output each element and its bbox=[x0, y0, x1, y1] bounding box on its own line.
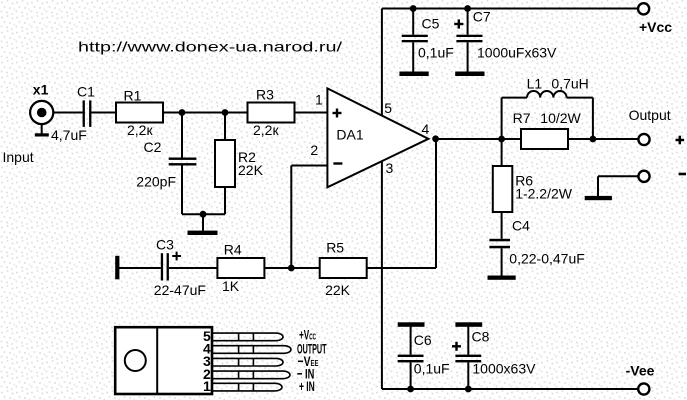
svg-text:22K: 22K bbox=[325, 282, 351, 298]
node L1 right bbox=[590, 136, 597, 143]
terminal output minus bbox=[638, 171, 649, 182]
wire C3 to R4 bbox=[169, 267, 217, 269]
wire negative output terminal horizontal bbox=[598, 175, 638, 177]
wire C7 stem bbox=[467, 9, 469, 35]
svg-text:2,2к: 2,2к bbox=[253, 122, 279, 138]
svg-text:2: 2 bbox=[310, 142, 318, 158]
node L1-R6 left bbox=[498, 136, 505, 143]
resistor R2 bbox=[215, 140, 235, 187]
svg-text:2,2к: 2,2к bbox=[127, 122, 153, 138]
ground bar under X1 bbox=[35, 133, 49, 136]
pin 3 lead bbox=[212, 358, 283, 366]
terminal +Vcc bbox=[638, 3, 649, 14]
capacitor C2 bbox=[169, 158, 197, 166]
wire input row X1 to C1 bbox=[54, 112, 83, 114]
svg-text:22-47uF: 22-47uF bbox=[154, 282, 206, 298]
wire C3 ground bar to C3 bbox=[119, 267, 161, 269]
svg-text:22K: 22K bbox=[238, 162, 264, 178]
wire op-amp pin 5 vertical bbox=[381, 9, 383, 117]
wire pin 2 vertical to feedback node bbox=[290, 166, 292, 269]
svg-text:http://www.donex-ua.narod.ru/: http://www.donex-ua.narod.ru/ bbox=[78, 38, 342, 54]
connector X1 bbox=[30, 101, 53, 124]
wire negative output ground stub bbox=[597, 176, 599, 196]
svg-text:L1: L1 bbox=[527, 76, 543, 92]
pin 2 lead bbox=[212, 371, 290, 379]
capacitor C6 bbox=[398, 355, 424, 363]
resistor R5 bbox=[320, 258, 367, 278]
svg-text:1: 1 bbox=[203, 378, 211, 394]
wire C6 upper stem bbox=[410, 327, 412, 355]
svg-text:C5: C5 bbox=[422, 15, 440, 31]
svg-text:R7: R7 bbox=[513, 110, 531, 126]
capacitor C8 bbox=[455, 355, 481, 363]
capacitor C4 bbox=[489, 239, 510, 249]
svg-text:0,22-0,47uF: 0,22-0,47uF bbox=[509, 250, 585, 266]
svg-text:10/2W: 10/2W bbox=[540, 110, 581, 126]
wire C4 lower stem bbox=[501, 248, 503, 275]
ground bar left of C3 bbox=[115, 256, 119, 279]
wire R7 to output terminal bbox=[568, 138, 638, 140]
svg-text:x1: x1 bbox=[33, 82, 49, 98]
svg-text:C2: C2 bbox=[144, 139, 162, 155]
pin 5 lead bbox=[212, 333, 283, 341]
node bottom rail C8 bbox=[465, 386, 472, 393]
resistor R3 bbox=[248, 103, 295, 123]
ground under C2-R2 bbox=[188, 231, 218, 235]
svg-text:0,7uH: 0,7uH bbox=[551, 76, 588, 92]
minus sign output bbox=[679, 173, 686, 176]
svg-text:1-2.2/2W: 1-2.2/2W bbox=[515, 185, 573, 201]
node after R1 bbox=[179, 109, 186, 116]
wire bottom -Vee rail bbox=[382, 388, 638, 390]
wire L1 loop top left bbox=[502, 97, 527, 99]
ground under C7 bbox=[455, 72, 484, 77]
terminal -Vee bbox=[638, 383, 649, 394]
inductor L1 bbox=[527, 91, 567, 98]
svg-text:Input: Input bbox=[3, 149, 34, 165]
wire R1 to R3 bbox=[163, 112, 248, 114]
svg-text:R5: R5 bbox=[326, 240, 344, 256]
ground under minus output bbox=[585, 196, 612, 200]
svg-text:3: 3 bbox=[386, 160, 394, 176]
svg-text:+Vcc: +Vcc bbox=[639, 19, 672, 35]
plus sign output bbox=[676, 136, 685, 145]
wire R6 upper stem bbox=[501, 139, 503, 166]
wire L1 loop right vertical bbox=[592, 98, 594, 139]
wire C7 lower stem bbox=[467, 42, 469, 72]
pin 4 lead bbox=[212, 346, 291, 354]
wire C2 branch lower bbox=[181, 165, 183, 214]
svg-text:DA1: DA1 bbox=[336, 126, 363, 142]
svg-text:1K: 1K bbox=[222, 278, 240, 294]
svg-text:4: 4 bbox=[422, 121, 430, 137]
ground above C6 bbox=[398, 322, 425, 327]
wire feedback vertical from pin 4 node bbox=[435, 139, 437, 268]
resistor R4 bbox=[217, 258, 264, 278]
node R2 top bbox=[222, 109, 229, 116]
wire C2-R2 bottom connector bbox=[182, 213, 225, 215]
wire L1 loop left vertical bbox=[501, 98, 503, 139]
svg-text:R3: R3 bbox=[256, 86, 274, 102]
capacitor C1 bbox=[83, 100, 92, 127]
capacitor C3 bbox=[161, 253, 169, 280]
wire R2 branch upper bbox=[224, 113, 226, 141]
wire C5 lower stem bbox=[412, 42, 414, 72]
plus sign C8 bbox=[452, 342, 461, 351]
svg-text:R4: R4 bbox=[224, 242, 242, 258]
wire C8 upper stem bbox=[467, 327, 469, 355]
ground under C4 bbox=[488, 276, 516, 280]
svg-text:1: 1 bbox=[315, 92, 323, 108]
plus sign C3 bbox=[172, 252, 181, 261]
wire C5 stem bbox=[412, 9, 414, 35]
resistor R7 bbox=[521, 129, 568, 149]
svg-text:C4: C4 bbox=[512, 218, 530, 234]
svg-text:5: 5 bbox=[384, 100, 392, 116]
ground above C8 bbox=[455, 322, 482, 327]
svg-text:C7: C7 bbox=[473, 8, 491, 24]
wire C6 lower stem bbox=[410, 362, 412, 389]
pin 1 lead bbox=[212, 383, 282, 391]
svg-text:1000x63V: 1000x63V bbox=[472, 361, 536, 377]
wire C1 to R1 bbox=[91, 112, 116, 114]
terminal output plus bbox=[638, 134, 649, 145]
wire op-amp pin 2 horizontal bbox=[291, 165, 327, 167]
node top rail C7 bbox=[464, 5, 471, 12]
plus input sign bbox=[333, 109, 342, 118]
node top rail C5 bbox=[410, 5, 417, 12]
svg-text:1000uFx63V: 1000uFx63V bbox=[477, 45, 557, 61]
svg-text:C6: C6 bbox=[414, 332, 432, 348]
minus input sign bbox=[333, 162, 342, 164]
wire C8 lower stem bbox=[467, 362, 469, 389]
svg-text:C1: C1 bbox=[77, 84, 95, 100]
capacitor C7 bbox=[456, 35, 482, 43]
svg-text:220pF: 220pF bbox=[136, 174, 176, 190]
svg-text:0,1uF: 0,1uF bbox=[414, 361, 450, 377]
node bottom rail C6 bbox=[407, 386, 414, 393]
svg-text:0,1uF: 0,1uF bbox=[418, 44, 454, 60]
ground under C5 bbox=[399, 72, 428, 77]
svg-text:C3: C3 bbox=[156, 237, 174, 253]
wire X1 ground stub bbox=[41, 124, 43, 134]
node pin 4 output bbox=[432, 135, 439, 142]
node pin 2 feedback junction bbox=[288, 265, 295, 272]
plus sign C7 bbox=[454, 19, 463, 28]
svg-text:Output: Output bbox=[629, 107, 671, 123]
svg-text:R1: R1 bbox=[124, 88, 142, 104]
wire C2 branch upper bbox=[181, 113, 183, 158]
wire output row pin4 to R7 bbox=[436, 138, 521, 140]
wire ground stub below C2-R2 bbox=[202, 214, 204, 230]
svg-text:+ IN: + IN bbox=[299, 378, 315, 394]
op-amp DA1 bbox=[327, 88, 428, 187]
wire L1 loop top right bbox=[567, 97, 593, 99]
svg-text:4,7uF: 4,7uF bbox=[51, 127, 87, 143]
svg-text:-Vee: -Vee bbox=[626, 363, 655, 379]
resistor R6 bbox=[493, 166, 513, 212]
node C2-R2 ground junction bbox=[200, 211, 207, 218]
wire R3 to op-amp pin 1 bbox=[294, 112, 327, 114]
wire R6 to C4 stem bbox=[501, 212, 503, 239]
IC package TO-220 body bbox=[115, 327, 212, 394]
wire R4 to R5 bbox=[264, 267, 320, 269]
resistor R1 bbox=[116, 103, 163, 123]
wire op-amp pin 3 vertical bbox=[381, 161, 383, 389]
svg-text:C8: C8 bbox=[472, 329, 490, 345]
wire R2 branch lower bbox=[224, 187, 226, 214]
wire R5 to output feedback vertical bbox=[367, 267, 437, 269]
wire top +Vcc rail bbox=[382, 8, 638, 10]
capacitor C5 bbox=[402, 35, 428, 43]
